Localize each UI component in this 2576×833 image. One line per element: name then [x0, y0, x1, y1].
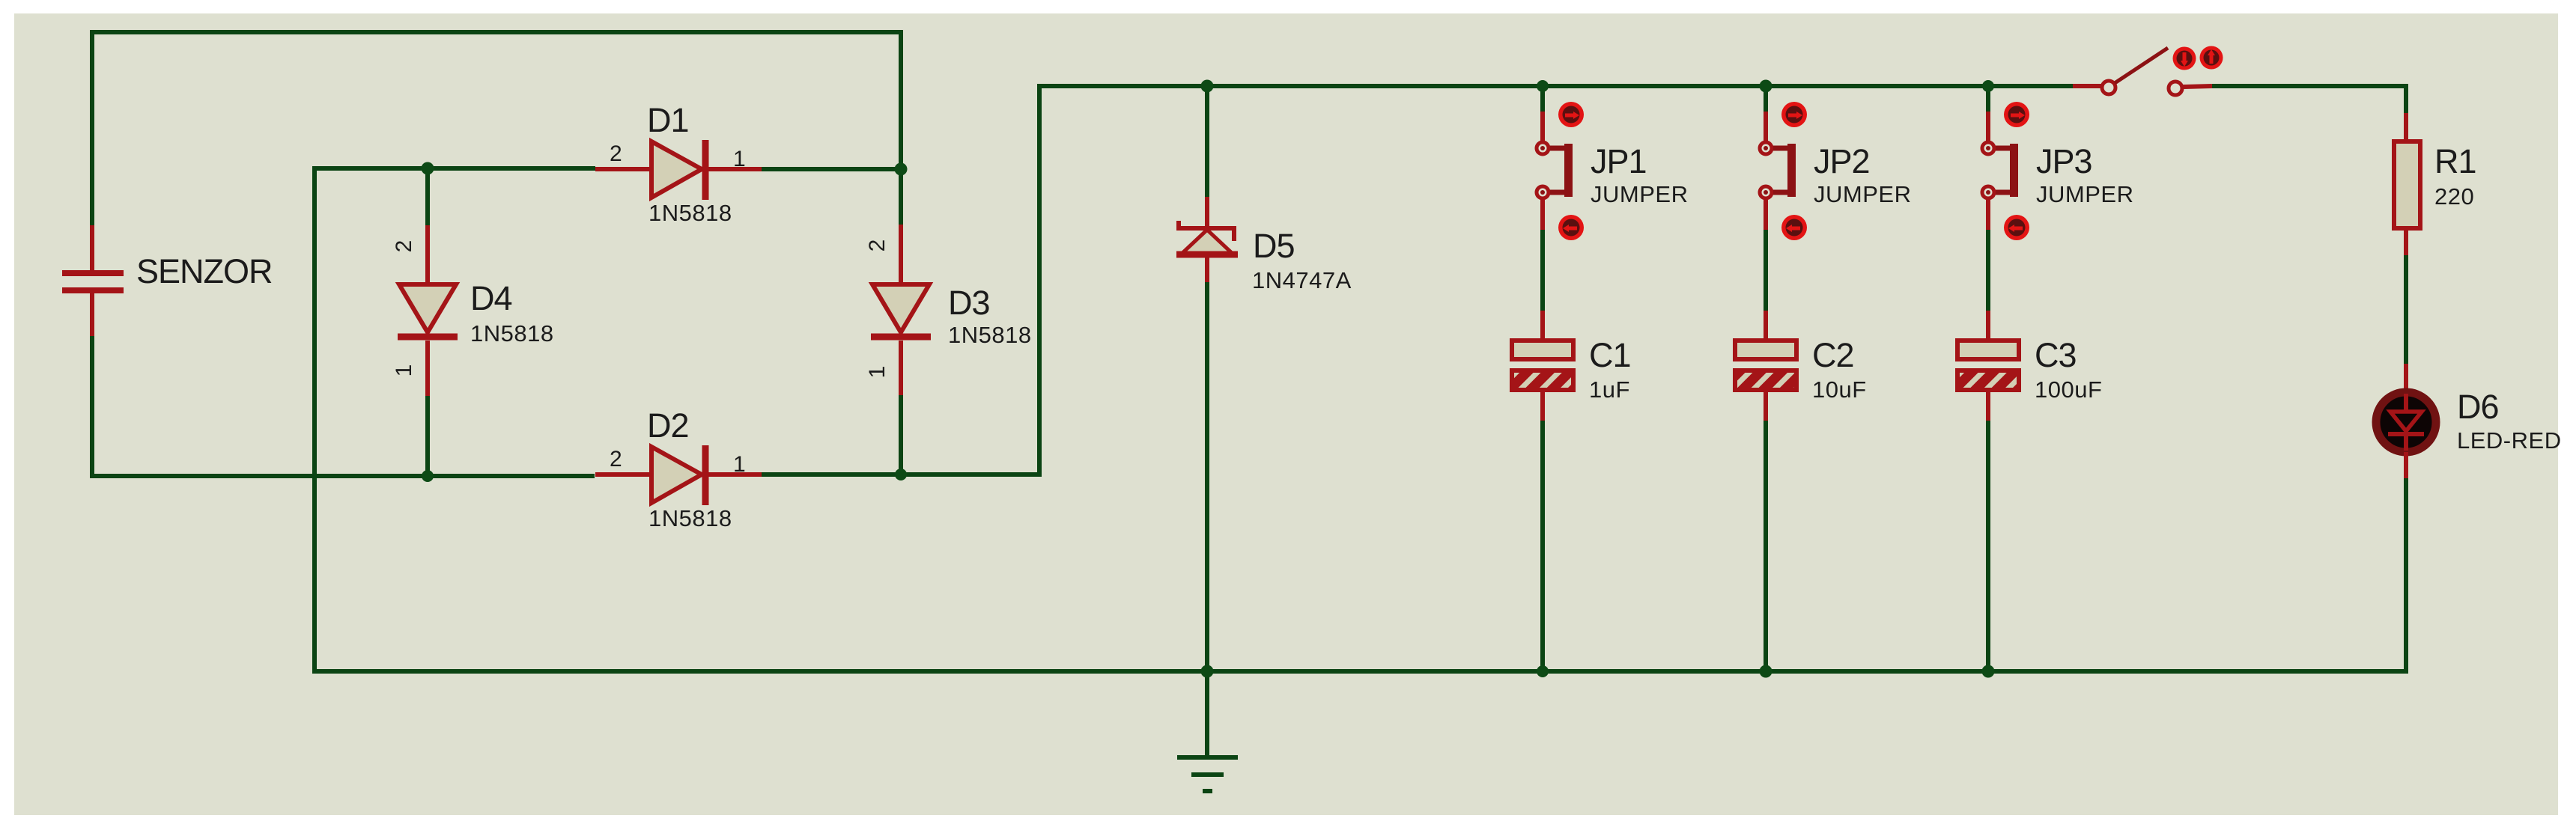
svg-text:1N4747A: 1N4747A: [1252, 267, 1352, 293]
svg-text:100uF: 100uF: [2035, 376, 2102, 403]
svg-text:2: 2: [865, 239, 890, 252]
svg-text:JP3: JP3: [2036, 142, 2092, 180]
svg-text:D1: D1: [647, 101, 689, 139]
svg-text:1: 1: [865, 366, 890, 379]
svg-text:JP1: JP1: [1591, 142, 1647, 180]
svg-text:1: 1: [392, 364, 416, 377]
svg-text:JUMPER: JUMPER: [1591, 181, 1688, 207]
svg-text:R1: R1: [2434, 142, 2476, 180]
svg-text:1uF: 1uF: [1589, 376, 1630, 403]
svg-text:D2: D2: [647, 406, 689, 445]
svg-text:1N5818: 1N5818: [470, 320, 554, 347]
svg-text:D3: D3: [948, 284, 990, 322]
svg-text:2: 2: [610, 447, 622, 472]
svg-text:2: 2: [392, 240, 416, 253]
svg-text:1N5818: 1N5818: [648, 200, 732, 226]
svg-text:D5: D5: [1253, 227, 1295, 265]
svg-text:2: 2: [610, 141, 622, 166]
svg-text:JP2: JP2: [1814, 142, 1870, 180]
svg-text:D6: D6: [2457, 388, 2499, 426]
svg-text:C2: C2: [1812, 336, 1854, 374]
svg-text:SENZOR: SENZOR: [136, 252, 273, 290]
svg-text:220: 220: [2434, 183, 2474, 210]
svg-text:LED-RED: LED-RED: [2457, 427, 2562, 454]
svg-text:C1: C1: [1589, 336, 1631, 374]
svg-text:C3: C3: [2035, 336, 2077, 374]
svg-text:10uF: 10uF: [1812, 376, 1867, 403]
svg-text:1N5818: 1N5818: [648, 505, 732, 531]
svg-text:1: 1: [733, 452, 746, 477]
svg-text:1N5818: 1N5818: [948, 322, 1032, 348]
svg-text:1: 1: [733, 147, 746, 171]
svg-text:JUMPER: JUMPER: [1814, 181, 1911, 207]
svg-text:JUMPER: JUMPER: [2036, 181, 2133, 207]
svg-text:D4: D4: [470, 279, 512, 317]
